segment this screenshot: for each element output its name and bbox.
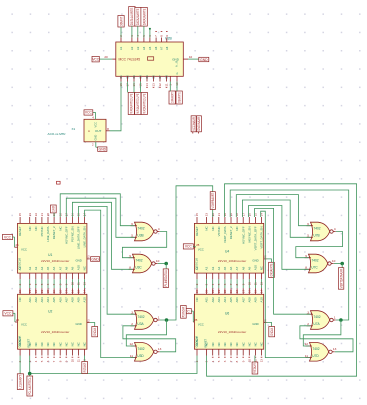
svg-text:4: 4 (92, 115, 94, 119)
svg-text:A7: A7 (160, 46, 164, 50)
U4 top pin stubs and numbers (196, 217, 198, 223)
svg-text:NC: NC (28, 226, 32, 230)
svg-text:20: 20 (46, 213, 50, 217)
svg-text:NC: NC (260, 342, 264, 346)
wire U6 pin to net label (254, 356, 256, 363)
svg-text:NC: NC (58, 226, 62, 230)
svg-text:GNDAX: GNDAX (93, 327, 97, 336)
svg-text:19: 19 (229, 213, 233, 217)
svg-text:13: 13 (152, 83, 156, 87)
svg-text:NC: NC (83, 266, 87, 270)
svg-text:A10: A10 (254, 265, 258, 271)
wire staircase from U1 pin 16 to U3C input 8 (72, 202, 132, 269)
svg-text:NC: NC (18, 297, 22, 301)
svg-text:11: 11 (254, 282, 258, 285)
svg-text:RSTAXR: RSTAXR (253, 363, 257, 373)
svg-text:23: 23 (28, 213, 32, 217)
svg-text:NC: NC (34, 226, 38, 230)
svg-text:10: 10 (332, 259, 336, 263)
svg-text:GNDINAXR: GNDINAXR (197, 117, 201, 131)
svg-text:GND: GND (252, 258, 258, 262)
svg-text:20: 20 (223, 289, 227, 293)
svg-text:GNDAXRTE: GNDAXRTE (270, 263, 274, 277)
svg-text:PSYNC: PSYNC (40, 226, 44, 236)
svg-text:U6: U6 (225, 311, 229, 315)
svg-text:A4: A4 (217, 266, 221, 270)
svg-text:23: 23 (205, 289, 209, 293)
wire U2 pin 3 clock junction to U6 clock pin (30, 356, 197, 374)
svg-text:20: 20 (46, 289, 50, 293)
net label VCC left of U2B (92, 56, 99, 62)
svg-text:NC: NC (217, 342, 221, 346)
svg-text:VCC: VCC (21, 322, 27, 326)
wire U7A output junction down to U7D input 12 (303, 320, 341, 346)
svg-text:A5: A5 (223, 266, 227, 270)
svg-text:A04: A04 (223, 297, 227, 303)
svg-text:VCC: VCC (4, 312, 12, 316)
second floating net label (197, 116, 202, 132)
stray tiny net label (57, 181, 61, 184)
junction on U7A output (339, 318, 343, 322)
svg-text:11: 11 (77, 359, 81, 362)
svg-text:A: A (88, 129, 90, 133)
wire U3D output to U3A input 2 (123, 326, 176, 352)
svg-text:3: 3 (307, 310, 309, 314)
svg-text:RESET: RESET (195, 226, 199, 236)
svg-text:11: 11 (305, 354, 308, 358)
svg-text:A5: A5 (148, 46, 152, 50)
svg-text:U2: U2 (48, 309, 52, 313)
wire staircase from U4 pin to U7B input 5 (242, 200, 310, 237)
svg-text:A01: A01 (205, 297, 209, 303)
U1 GND pin 12 and label (87, 258, 90, 260)
svg-text:NC: NC (58, 342, 62, 346)
svg-text:15: 15 (18, 213, 22, 217)
wire U2 pin 13 to net label (84, 356, 86, 362)
svg-text:VCC: VCC (92, 57, 100, 61)
U2 GND pin 12 and label (87, 322, 90, 324)
svg-text:8: 8 (58, 360, 62, 362)
svg-text:21: 21 (217, 213, 221, 217)
svg-text:A10: A10 (83, 297, 87, 303)
svg-text:A10: A10 (260, 297, 264, 303)
svg-text:A1: A1 (119, 46, 123, 50)
svg-text:NC: NC (223, 342, 227, 346)
svg-text:10: 10 (247, 359, 251, 363)
svg-text:18: 18 (235, 213, 239, 217)
svg-text:22V10_10bitCounter: 22V10_10bitCounter (41, 259, 69, 263)
svg-text:7: 7 (229, 360, 233, 362)
svg-text:OEAXRTE: OEAXRTE (177, 92, 181, 103)
svg-text:RESET: RESET (18, 226, 22, 236)
U2B DIR pin 1 stub (169, 76, 171, 81)
pins between U4 and U6 (196, 273, 198, 279)
svg-text:14: 14 (260, 289, 264, 293)
svg-text:U7D: U7D (312, 354, 319, 358)
wire stub on U2B pin 6 (149, 29, 151, 38)
svg-text:A9: A9 (71, 266, 75, 270)
svg-text:6: 6 (46, 360, 50, 362)
net label below U6 pin (252, 362, 258, 374)
svg-text:7402: 7402 (137, 315, 144, 319)
svg-text:A09: A09 (77, 297, 81, 303)
wire staircase from U1 pin 17 to U3B input 5 (66, 198, 134, 237)
svg-text:16: 16 (71, 289, 75, 293)
svg-text:G: G (175, 72, 179, 74)
svg-text:12: 12 (86, 255, 90, 259)
nor gate U7A (311, 311, 330, 330)
X1 VCC pin wire (93, 111, 96, 113)
svg-text:12: 12 (158, 83, 162, 87)
svg-text:A05: A05 (52, 297, 56, 303)
svg-text:VERT_DATA: VERT_DATA (223, 226, 227, 243)
svg-text:22V10_10bitCounter: 22V10_10bitCounter (41, 330, 69, 334)
svg-text:13: 13 (83, 282, 87, 286)
U2B top pin stubs and numbers (120, 38, 122, 43)
wire staircase from U4 pin to U7C input 8 (249, 206, 309, 270)
svg-text:PSYNC_EN: PSYNC_EN (71, 226, 75, 242)
svg-text:13: 13 (158, 347, 162, 351)
svg-text:NC: NC (34, 342, 38, 346)
svg-text:A7: A7 (235, 266, 239, 270)
svg-text:GND: GND (91, 257, 99, 261)
svg-text:LCLKAXRT: LCLKAXRT (19, 375, 23, 389)
U1 top pin stubs and numbers (19, 217, 21, 223)
svg-text:VCC: VCC (21, 247, 27, 251)
svg-text:U3B: U3B (137, 234, 143, 238)
svg-text:VCC: VCC (94, 122, 98, 128)
net label below U2B pin 17 (128, 92, 134, 114)
nor gate U3A (135, 311, 154, 330)
wire U6 RESET pin to top of right column (207, 184, 357, 376)
svg-text:4: 4 (334, 227, 336, 231)
svg-text:U3A: U3A (137, 322, 144, 326)
svg-text:1: 1 (334, 315, 336, 319)
svg-text:DATA2AXRTE: DATA2AXRTE (136, 8, 140, 25)
svg-text:NC: NC (83, 342, 87, 346)
svg-text:A7: A7 (58, 266, 62, 270)
counter U6 body (194, 294, 263, 349)
net label below U2 pin 13 (82, 362, 88, 374)
svg-text:3: 3 (131, 310, 133, 314)
svg-text:CAXR: CAXR (52, 206, 56, 212)
svg-text:VCC: VCC (4, 235, 12, 239)
svg-text:A3: A3 (34, 266, 38, 270)
svg-text:NC: NC (205, 226, 209, 230)
wire staircase from U4 pin to U7D input 11 (261, 211, 310, 357)
svg-text:13: 13 (333, 347, 337, 351)
svg-text:LINE_DATA: LINE_DATA (46, 226, 50, 241)
svg-text:A8: A8 (165, 46, 169, 50)
net label VCC left of U1 (3, 234, 13, 239)
svg-text:15: 15 (18, 289, 22, 293)
U2B VCC pin 20 wire (99, 58, 112, 60)
svg-text:WR1AXRTEDLPE: WR1AXRTEDLPE (136, 93, 140, 113)
U2B GND pin 10 wire (183, 58, 188, 60)
svg-text:15: 15 (77, 289, 81, 293)
svg-text:VERT_DATA_EN: VERT_DATA_EN (260, 226, 264, 248)
wire U2 pin 2 to bottom net label (19, 356, 21, 374)
wire U3B output to U3C input 9 (122, 232, 166, 258)
svg-text:9: 9 (305, 254, 307, 258)
svg-text:15: 15 (195, 289, 199, 293)
svg-text:A03: A03 (40, 297, 44, 303)
svg-text:NC: NC (77, 342, 81, 346)
svg-text:NC: NC (195, 297, 199, 301)
svg-text:22: 22 (34, 213, 38, 217)
svg-text:25: 25 (194, 318, 198, 322)
svg-text:NC: NC (46, 342, 50, 346)
svg-text:11: 11 (77, 282, 81, 285)
svg-text:7: 7 (52, 360, 56, 362)
net label below U2B pin 1 (169, 91, 175, 104)
svg-text:7: 7 (154, 35, 158, 37)
wire staircase from U1 pin 15 to U3A input 3 (79, 206, 135, 314)
tick marks on unconnected U2B bottom pins (146, 86, 148, 88)
svg-text:6: 6 (223, 360, 227, 362)
net label PSYNC on feedback wire (181, 306, 187, 319)
svg-text:25: 25 (16, 318, 20, 322)
svg-text:GND: GND (76, 322, 82, 326)
svg-text:4: 4 (211, 360, 215, 362)
nor gate U7C (309, 254, 328, 273)
nor gate U7B (311, 222, 330, 241)
svg-text:20: 20 (223, 213, 227, 217)
svg-text:12: 12 (86, 318, 90, 322)
svg-text:5: 5 (307, 234, 309, 238)
svg-text:NC: NC (241, 342, 245, 346)
svg-text:WR2AXRTEDLPE: WR2AXRTEDLPE (143, 93, 147, 113)
svg-text:17: 17 (241, 289, 245, 293)
X1 output pin 8 wire to U2B pin 18 (106, 130, 110, 132)
wire U7C output to junction and net label (334, 263, 342, 265)
counter U4 body (194, 223, 263, 273)
junction on U3C output (164, 262, 168, 266)
svg-text:A02: A02 (211, 297, 215, 303)
svg-text:10: 10 (71, 282, 75, 286)
wire staircase from U4 pin to U7A input 3 (255, 208, 311, 314)
svg-text:GND: GND (94, 135, 98, 141)
svg-text:NC: NC (235, 342, 239, 346)
svg-text:25: 25 (15, 243, 19, 247)
svg-text:RESET: RESET (27, 338, 31, 347)
svg-text:15: 15 (254, 213, 258, 217)
svg-text:A9: A9 (247, 266, 251, 270)
svg-text:GND: GND (76, 258, 82, 262)
svg-text:VCC: VCC (198, 322, 204, 326)
svg-text:U3C: U3C (135, 266, 142, 270)
svg-text:NC: NC (40, 342, 44, 346)
svg-text:VCC: VCC (85, 111, 93, 115)
svg-text:7402: 7402 (313, 315, 320, 319)
pins between U1 and U2 (19, 273, 21, 279)
net label above U2B pin 4 (135, 7, 141, 26)
svg-text:PLINEDATAA: PLINEDATAA (164, 270, 168, 287)
svg-text:A03: A03 (217, 297, 221, 303)
svg-text:10: 10 (156, 259, 160, 263)
wire U3A output junction down to U3D input 12 (126, 320, 166, 346)
net label below clock junction (29, 374, 31, 377)
svg-text:25: 25 (196, 243, 200, 247)
svg-text:A05: A05 (229, 297, 233, 303)
svg-text:A3: A3 (136, 46, 140, 50)
svg-text:10: 10 (247, 282, 251, 286)
svg-text:23: 23 (205, 213, 209, 217)
svg-text:4: 4 (34, 360, 38, 362)
svg-text:A6: A6 (229, 266, 233, 270)
svg-text:DATA3AXRTE: DATA3AXRTE (142, 8, 146, 25)
net label GND below X1 (98, 147, 107, 152)
svg-text:22V10_10bitCounter: 22V10_10bitCounter (218, 259, 246, 263)
svg-text:6: 6 (307, 222, 309, 226)
svg-text:7402: 7402 (137, 227, 144, 231)
svg-text:VSYNC: VSYNC (217, 226, 221, 236)
svg-text:HSYNC_OFF: HSYNC_OFF (64, 226, 68, 244)
svg-text:VSMPBAXRT: VSMPBAXRT (211, 193, 215, 209)
svg-text:A4: A4 (142, 46, 146, 50)
svg-text:15: 15 (195, 213, 199, 217)
svg-text:X1: X1 (72, 127, 76, 131)
svg-text:A5: A5 (46, 266, 50, 270)
svg-text:A06: A06 (58, 297, 62, 303)
net label VCC above X1 (84, 110, 93, 115)
net label below U2B pin 16 (135, 92, 141, 114)
svg-text:U7A: U7A (313, 322, 320, 326)
svg-text:8: 8 (235, 360, 239, 362)
svg-text:9: 9 (129, 254, 131, 258)
svg-text:NC: NC (260, 266, 264, 270)
wire staircase from U4 pin to U7B input 6 (236, 195, 310, 226)
svg-text:7402: 7402 (135, 259, 142, 263)
svg-text:PSYNCAX: PSYNCAX (182, 306, 186, 317)
svg-text:11: 11 (130, 354, 133, 358)
svg-text:A01: A01 (28, 297, 32, 303)
oscillator X1 body (84, 119, 106, 142)
counter U2 body (18, 294, 87, 349)
svg-text:16: 16 (247, 213, 251, 217)
svg-text:COO/CLK: COO/CLK (194, 258, 198, 270)
svg-text:RESET: RESET (203, 338, 207, 347)
net label VCC left of U4 (183, 244, 193, 249)
net label above U2B pin 2 (118, 16, 124, 28)
svg-text:A→B: A→B (175, 61, 179, 67)
junction on U7C output (340, 262, 344, 266)
svg-text:9: 9 (165, 35, 169, 37)
svg-text:VCC: VCC (185, 245, 193, 249)
nor gate U3D (135, 343, 154, 362)
svg-text:VERTDATAAXR: VERTDATAAXR (339, 268, 343, 288)
wire staircase from U1 pin 18 to U3B input 6 (60, 194, 134, 226)
svg-text:VCC: VCC (198, 247, 204, 251)
svg-text:23: 23 (28, 289, 32, 293)
svg-text:13: 13 (260, 359, 264, 363)
svg-text:19: 19 (229, 289, 233, 293)
svg-text:VERT_DATA_OFF: VERT_DATA_OFF (254, 226, 258, 250)
svg-text:U7C: U7C (311, 266, 318, 270)
svg-text:5: 5 (40, 360, 44, 362)
svg-text:8: 8 (160, 35, 164, 37)
svg-text:6: 6 (131, 222, 133, 226)
svg-text:U1: U1 (48, 253, 52, 257)
svg-text:1: 1 (158, 315, 160, 319)
svg-text:7402: 7402 (311, 259, 318, 263)
svg-text:7402: 7402 (137, 347, 144, 351)
svg-text:7402: 7402 (313, 227, 320, 231)
wire staircase from U1 pin 14 to U3D input 11 (85, 210, 135, 358)
svg-text:18: 18 (235, 289, 239, 293)
svg-text:MSYNC_EN: MSYNC_EN (247, 226, 251, 242)
net label above U2B pin 3 (129, 7, 135, 27)
svg-text:NC: NC (254, 342, 258, 346)
svg-text:A8: A8 (64, 266, 68, 270)
svg-text:22V10_10bitCounter: 22V10_10bitCounter (218, 330, 246, 334)
svg-text:D0AXRT: D0AXRT (119, 17, 123, 26)
svg-text:14: 14 (145, 83, 149, 87)
net label pair floating right of X1 (191, 116, 196, 132)
U2 bottom pin stubs and numbers (19, 349, 21, 355)
svg-text:A4: A4 (40, 266, 44, 270)
svg-text:GND: GND (200, 58, 208, 62)
svg-text:A07: A07 (64, 297, 68, 303)
net label GND right of U2B (199, 57, 209, 61)
svg-text:HSYNC_OFF: HSYNC_OFF (241, 226, 245, 244)
svg-text:DATA1AXRTE: DATA1AXRTE (130, 7, 134, 25)
junction below U2 pin 3 (28, 372, 32, 376)
tick marks on U2B pins 7-9 (155, 31, 157, 33)
net label PLINE_DATA below U3C output junction (165, 264, 167, 269)
net label VCC left of U6 (181, 309, 191, 314)
U6 GND pin 12 and label (264, 322, 267, 324)
svg-text:NC: NC (71, 342, 75, 346)
svg-text:17: 17 (241, 213, 245, 217)
svg-text:18: 18 (58, 289, 62, 293)
svg-text:A2: A2 (28, 266, 32, 270)
U4 GND pin 12 and label (264, 258, 267, 260)
U6 bottom pin stubs and numbers (196, 349, 198, 355)
svg-text:RSTAXR: RSTAXR (83, 362, 87, 372)
svg-text:4: 4 (158, 227, 160, 231)
svg-text:8: 8 (107, 127, 109, 131)
svg-text:19: 19 (52, 289, 56, 293)
svg-text:21: 21 (217, 289, 221, 293)
svg-text:22: 22 (34, 289, 38, 293)
svg-text:VCCINAXR: VCCINAXR (192, 117, 196, 131)
svg-text:A8: A8 (241, 266, 245, 270)
svg-text:10: 10 (189, 55, 193, 59)
svg-text:15: 15 (254, 289, 258, 293)
svg-text:NC: NC (64, 342, 68, 346)
svg-text:A10: A10 (77, 265, 81, 271)
svg-text:U3D: U3D (137, 354, 144, 358)
svg-text:A02: A02 (34, 297, 38, 303)
svg-text:RESET_2: RESET_2 (52, 226, 56, 239)
junction on U3A output (165, 318, 169, 322)
svg-text:NC: NC (235, 226, 239, 230)
svg-text:A08: A08 (247, 297, 251, 303)
net label below U2B pin 15 (141, 92, 147, 114)
svg-text:A3: A3 (211, 266, 215, 270)
svg-text:A6: A6 (52, 266, 56, 270)
svg-text:A04: A04 (46, 297, 50, 303)
svg-text:DIRAXRT: DIRAXRT (170, 92, 174, 103)
net label below U2 pin 2 (17, 374, 23, 390)
net label below U2B pin 19 (176, 91, 182, 104)
svg-text:17: 17 (64, 289, 68, 293)
net label above U2B pin 5 (141, 7, 147, 26)
wire U7A output to junction (336, 319, 341, 321)
svg-text:16: 16 (247, 289, 251, 293)
svg-text:13: 13 (260, 282, 264, 286)
